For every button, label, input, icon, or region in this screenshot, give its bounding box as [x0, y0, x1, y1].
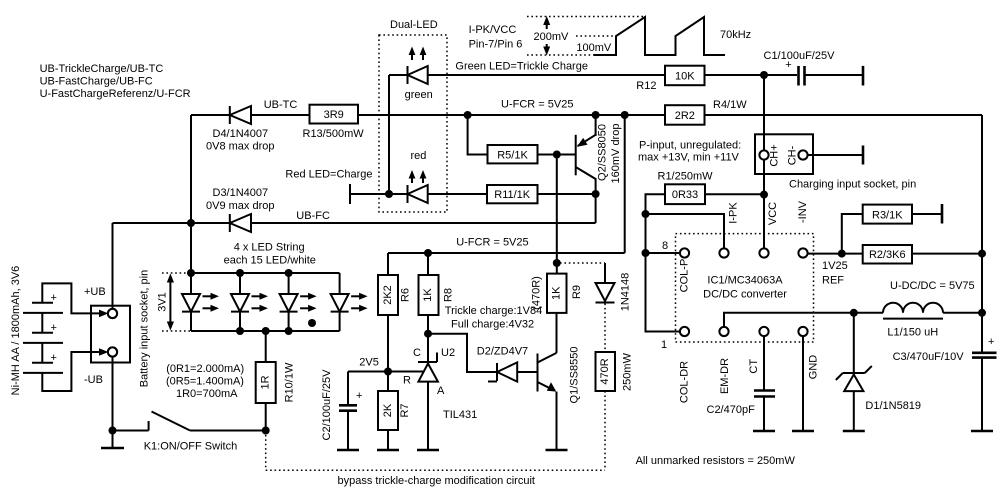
wire I-PK: [646, 214, 725, 248]
svg-text:+: +: [51, 292, 57, 304]
svg-text:0R33: 0R33: [672, 189, 698, 201]
resistor R11 1K: [487, 185, 596, 203]
svg-text:CH-: CH-: [787, 145, 799, 165]
node LED2 top / LED3 top: [236, 269, 244, 277]
wire UB-TC rail: [358, 114, 665, 116]
I-PK/VCC note: [469, 24, 523, 51]
resistor R12 10K: [636, 66, 797, 92]
diode D1 1N5819: [836, 313, 921, 431]
svg-text:100mV: 100mV: [576, 42, 612, 54]
svg-text:DC/DC converter: DC/DC converter: [703, 289, 787, 301]
svg-text:R11/1K: R11/1K: [494, 189, 531, 201]
capacitor C3 470uF: [893, 336, 997, 431]
svg-text:+: +: [51, 322, 57, 334]
node Q2 base junction: [553, 151, 561, 159]
svg-text:D3/1N4007: D3/1N4007: [213, 187, 269, 199]
wire U-FCR lower rail: [388, 252, 625, 254]
pin -INV: [798, 248, 807, 257]
svg-text:+: +: [988, 336, 994, 348]
pin COL-DR: [680, 327, 689, 336]
svg-text:R7: R7: [399, 403, 411, 417]
node right rail L1: [978, 309, 986, 317]
svg-text:Charging input socket, pin: Charging input socket, pin: [789, 179, 916, 191]
svg-text:R10/1W: R10/1W: [284, 362, 296, 402]
svg-text:C: C: [413, 347, 421, 359]
capacitor C2 470pF: [707, 336, 776, 431]
title text block top-left: [40, 63, 191, 100]
wire socket up to UB-FC rail: [112, 223, 114, 309]
node R8 bottom / TL431 cathode: [424, 330, 432, 338]
svg-text:200mV: 200mV: [534, 31, 570, 43]
svg-text:+: +: [785, 59, 791, 71]
capacitor C1 100uF: [764, 50, 864, 86]
svg-text:IC1/MC34063A: IC1/MC34063A: [707, 274, 783, 286]
svg-text:0V8 max drop: 0V8 max drop: [206, 141, 274, 153]
wire dual-LED common vertical: [388, 75, 390, 194]
bypass dotted branch with 1N4148 and 470R: [266, 263, 634, 487]
svg-text:2K2: 2K2: [382, 285, 394, 305]
svg-text:R6: R6: [399, 288, 411, 302]
node R9 top / bypass tap: [553, 259, 561, 267]
wire CH+ down to VCC pin: [763, 160, 765, 249]
svg-text:2K: 2K: [382, 403, 394, 417]
pin I-PK: [719, 248, 728, 257]
svg-text:470R: 470R: [599, 358, 611, 384]
wire R8 node to D2: [428, 334, 497, 372]
svg-text:D1/1N5819: D1/1N5819: [865, 400, 921, 412]
svg-text:C2/100uF/25V: C2/100uF/25V: [321, 369, 333, 441]
diode D3 1N4007: [113, 187, 330, 232]
svg-text:K1:ON/OFF Switch: K1:ON/OFF Switch: [144, 441, 238, 453]
LED1 white: [182, 273, 219, 331]
P-input note: [638, 140, 741, 164]
wire COL-P: [646, 252, 680, 254]
wire EM-DR to L1: [724, 313, 854, 327]
svg-text:CH+: CH+: [769, 144, 781, 166]
svg-text:Q1/SS8550: Q1/SS8550: [568, 347, 580, 404]
IC1 MC34063A dotted box: [676, 234, 814, 342]
svg-text:each 15 LED/white: each 15 LED/white: [224, 255, 316, 267]
wire left vertical UB rail: [190, 115, 192, 273]
wire socket minus down: [112, 357, 114, 431]
svg-text:U-FastChargeReferenz/U-FCR: U-FastChargeReferenz/U-FCR: [40, 88, 191, 100]
resistor R2 3K6: [842, 245, 982, 264]
svg-text:I-PK: I-PK: [727, 202, 739, 224]
shunt regulator U2 TIL431: [348, 334, 477, 450]
wire right vertical rail: [981, 115, 983, 352]
node LED2 bottom / R10 / LED3 bottom: [236, 327, 244, 335]
wire battery minus to socket: [42, 348, 108, 391]
LED string label: [224, 242, 316, 267]
svg-text:4 x LED String: 4 x LED String: [234, 242, 305, 254]
LED3 white: [280, 273, 317, 331]
node I-PK branch: [642, 210, 650, 218]
svg-text:R9: R9: [571, 285, 583, 299]
node switch left junction: [109, 427, 117, 435]
node R8 top: [424, 249, 432, 257]
svg-text:R12: R12: [636, 80, 656, 92]
svg-text:Pin-7/Pin 6: Pin-7/Pin 6: [469, 39, 523, 51]
svg-text:+: +: [356, 390, 362, 402]
svg-text:I-PK/VCC: I-PK/VCC: [469, 24, 517, 36]
Dual-LED dotted box: [379, 19, 447, 212]
svg-text:Dual-LED: Dual-LED: [390, 19, 438, 31]
wire GND pin to ground: [792, 336, 814, 431]
svg-text:Q2/SS8050: Q2/SS8050: [596, 124, 608, 181]
svg-text:D4/1N4007: D4/1N4007: [213, 128, 269, 140]
node D1 tap: [850, 309, 858, 317]
svg-text:CT: CT: [748, 359, 760, 374]
svg-text:1V25: 1V25: [822, 260, 848, 272]
svg-text:1N4148: 1N4148: [620, 273, 632, 312]
svg-text:UB-FC: UB-FC: [296, 210, 330, 222]
LED string rails: [162, 273, 340, 331]
resistor R6 2K2: [378, 253, 411, 372]
svg-text:2V5: 2V5: [359, 357, 379, 369]
svg-text:Full charge:4V32: Full charge:4V32: [451, 318, 534, 330]
node R10 bottom junction: [262, 427, 270, 435]
svg-text:C3/470uF/10V: C3/470uF/10V: [893, 351, 965, 363]
svg-text:R2/3K6: R2/3K6: [869, 249, 906, 261]
svg-text:U2: U2: [441, 347, 455, 359]
svg-text:C1/100uF/25V: C1/100uF/25V: [764, 50, 836, 62]
waveform ripple sketch: [527, 16, 751, 56]
svg-text:GND: GND: [807, 355, 819, 380]
node COL-P branch: [642, 249, 650, 257]
node Q2 collector junction: [592, 190, 600, 198]
svg-text:R3/1K: R3/1K: [872, 210, 903, 222]
svg-text:UB-TrickleCharge/UB-TC: UB-TrickleCharge/UB-TC: [40, 63, 164, 75]
svg-text:U-DC/DC = 5V75: U-DC/DC = 5V75: [890, 280, 975, 292]
svg-text:(0R1=2.000mA): (0R1=2.000mA): [166, 363, 244, 375]
svg-text:R: R: [403, 375, 411, 387]
node red LED junction: [385, 190, 393, 198]
svg-text:1K: 1K: [422, 288, 434, 302]
resistor values note: [166, 363, 244, 400]
svg-text:All unmarked resistors = 250mW: All unmarked resistors = 250mW: [636, 455, 796, 467]
svg-text:C2/470pF: C2/470pF: [707, 404, 756, 416]
battery input socket K: [91, 270, 150, 387]
svg-text:U-FCR = 5V25: U-FCR = 5V25: [456, 237, 528, 249]
charge voltage note: [445, 305, 542, 330]
svg-text:bypass trickle-charge modifica: bypass trickle-charge modification circu…: [338, 475, 535, 487]
svg-text:R5/1K: R5/1K: [497, 149, 528, 161]
svg-text:D2/ZD4V7: D2/ZD4V7: [477, 345, 528, 357]
svg-text:1R0=700mA: 1R0=700mA: [176, 388, 238, 400]
battery B1 Ni-MH pack: [10, 266, 63, 396]
diode D4 1N4007: [191, 99, 310, 153]
resistor R8 1K: [419, 253, 455, 334]
resistor R7 2K: [377, 372, 411, 451]
svg-text:10K: 10K: [675, 70, 695, 82]
wire -INV to divider: [808, 253, 842, 255]
svg-text:VCC: VCC: [767, 202, 779, 225]
node C1 tap: [760, 71, 768, 79]
resistor R10 1R: [256, 331, 296, 431]
svg-text:3R9: 3R9: [324, 109, 344, 121]
svg-text:1: 1: [661, 339, 667, 351]
wire UB-FC rail: [251, 222, 596, 224]
pin GND: [798, 327, 807, 336]
pin EM-DR: [719, 327, 728, 336]
svg-text:1R: 1R: [260, 375, 272, 389]
LED2 white: [231, 273, 268, 331]
svg-text:250mW: 250mW: [622, 352, 634, 391]
svg-text:R13/500mW: R13/500mW: [303, 128, 365, 140]
resistor R3 1K: [842, 204, 942, 254]
node 2V5: [384, 368, 392, 376]
resistor R9 1K (470R): [530, 263, 583, 313]
node right rail R2: [978, 250, 986, 258]
svg-text:8: 8: [662, 240, 668, 252]
node divider: [838, 250, 846, 258]
pin CT: [759, 327, 768, 336]
svg-text:EM-DR: EM-DR: [719, 358, 731, 394]
svg-text:+: +: [51, 352, 57, 364]
resistor R1 0R33: [646, 171, 765, 332]
inductor L1 150uH: [854, 303, 982, 339]
svg-text:P-input, unregulated:: P-input, unregulated:: [639, 140, 741, 152]
switch K1: [113, 412, 266, 453]
capacitor C2 100uF: [321, 369, 362, 450]
ground battery: [101, 431, 124, 449]
svg-text:R1/250mW: R1/250mW: [658, 171, 714, 183]
svg-text:L1/150 uH: L1/150 uH: [887, 327, 938, 339]
svg-text:0V9 max drop: 0V9 max drop: [206, 200, 274, 212]
svg-text:green: green: [405, 89, 433, 101]
svg-text:max +13V, min +11V: max +13V, min +11V: [638, 151, 740, 163]
node Q2 emitter on rail / U-FCR branch on rail: [592, 111, 600, 119]
svg-text:A: A: [437, 385, 445, 397]
wire Q2 base node down to R9: [556, 155, 558, 264]
resistor R13 3R9: [303, 105, 365, 140]
wire U-FCR vertical link: [624, 115, 626, 253]
svg-text:+UB: +UB: [84, 286, 106, 298]
svg-text:3V1: 3V1: [157, 292, 169, 312]
battery socket pin circles: [108, 309, 117, 318]
zener diode D2 ZD4V7: [477, 345, 538, 381]
transistor Q1 SS8550: [538, 313, 581, 450]
resistor R4 2R2: [665, 99, 982, 125]
svg-text:R4/1W: R4/1W: [713, 99, 747, 111]
svg-text:COL-DR: COL-DR: [679, 361, 691, 403]
svg-text:Ni-MH AA / 1800mAh, 3V6: Ni-MH AA / 1800mAh, 3V6: [10, 266, 22, 396]
svg-text:70kHz: 70kHz: [720, 29, 751, 41]
svg-text:1K: 1K: [550, 286, 562, 300]
node R5 tap on UB-TC rail: [464, 111, 472, 119]
charging input socket: [755, 75, 916, 191]
wire red LED to R11: [428, 193, 487, 195]
transistor Q2 SS8050: [576, 115, 622, 194]
wire collector to UB-FC rail: [595, 194, 597, 223]
svg-text:U-FCR = 5V25: U-FCR = 5V25: [501, 99, 573, 111]
svg-text:red: red: [411, 150, 427, 162]
resistor R5 1K: [468, 115, 576, 163]
svg-text:Red LED=Charge: Red LED=Charge: [285, 169, 372, 181]
pin COL-P: [680, 248, 689, 257]
svg-text:TIL431: TIL431: [443, 409, 477, 421]
svg-text:UB-FastCharge/UB-FC: UB-FastCharge/UB-FC: [40, 75, 153, 87]
LED red: [389, 150, 428, 203]
svg-text:REF: REF: [822, 275, 844, 287]
svg-text:R8: R8: [443, 288, 455, 302]
ellipsis dot in LED string: [308, 319, 316, 327]
svg-text:-INV: -INV: [797, 200, 809, 223]
svg-text:-UB: -UB: [84, 374, 103, 386]
node LED string top left: [187, 269, 195, 277]
red LED terminal stub: [285, 169, 389, 204]
LED green: [389, 47, 665, 102]
svg-text:Green LED=Trickle Charge: Green LED=Trickle Charge: [455, 61, 588, 73]
pin VCC: [759, 248, 768, 257]
svg-text:COL-P: COL-P: [678, 259, 690, 293]
3V1 dimension arrow: [157, 274, 175, 331]
wire battery plus to socket: [42, 283, 108, 317]
node 0R33 right: [760, 191, 768, 199]
svg-text:Trickle charge:1V84: Trickle charge:1V84: [445, 305, 542, 317]
svg-text:2R2: 2R2: [675, 110, 695, 122]
svg-text:UB-TC: UB-TC: [264, 99, 298, 111]
svg-text:Battery input socket, pin: Battery input socket, pin: [138, 270, 150, 387]
LED4 white: [331, 273, 368, 331]
svg-text:160mV drop: 160mV drop: [610, 124, 622, 184]
svg-text:(0R5=1.400mA): (0R5=1.400mA): [166, 376, 244, 388]
node UB-FC left: [187, 219, 195, 227]
